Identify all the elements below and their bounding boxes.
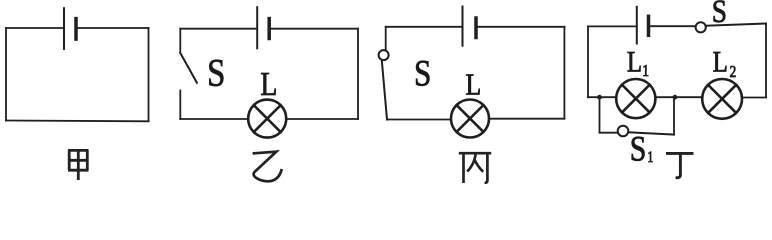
svg-text:2: 2	[730, 63, 737, 82]
caption 丙 under circuit 丙	[459, 153, 491, 183]
wire: bottom-left of circuit 乙 to lamp	[180, 118, 248, 120]
svg-text:S: S	[712, 0, 727, 30]
battery cell G4 of circuit 丁: long positive plate	[636, 7, 638, 44]
wire: bottom-left of circuit 丙 to lamp	[387, 119, 451, 121]
wire: middle row between lamps of circuit 丁	[655, 96, 702, 98]
svg-text:S: S	[630, 130, 647, 169]
label L1 of lamp in circuit 丁	[627, 44, 642, 78]
label S1 of switch in circuit 丁	[630, 130, 647, 169]
caption 乙 under circuit 乙	[253, 152, 282, 182]
switch S1 of circuit 丁: blade to right	[628, 132, 674, 134]
wire: right side of circuit 甲	[148, 28, 150, 121]
label S of switch in circuit 丁	[712, 0, 727, 30]
wire: bottom-right of circuit 乙 from lamp	[286, 118, 358, 120]
wire: top of circuit 丁 from battery to switch S	[649, 25, 696, 27]
battery cell G1 of circuit 甲: long positive plate	[63, 8, 65, 49]
wire: right side of circuit 丙	[563, 27, 565, 119]
svg-text:L: L	[713, 44, 728, 78]
wire: left side of circuit 甲	[5, 28, 7, 121]
wire: lower left side of circuit 乙 below switch gap	[179, 91, 181, 120]
wire: upper left of circuit 丙 down to switch pivot	[385, 27, 387, 50]
caption 甲 under circuit 甲	[68, 150, 89, 180]
wire: bottom of circuit 甲	[6, 120, 149, 123]
wire: top-left segment of circuit 甲	[6, 27, 64, 29]
label S of switch in circuit 乙	[207, 51, 225, 95]
lamp L2 of circuit 丁: circle with cross	[702, 79, 742, 119]
wire: left side of circuit 丁	[587, 26, 589, 97]
wire: top-right segment of circuit 甲	[76, 27, 149, 29]
junction node B (between lamps L1 and L2)	[673, 95, 678, 100]
svg-text:S: S	[207, 51, 225, 95]
wire: bypass branch left vertical from node A	[599, 97, 601, 133]
label L of lamp in circuit 乙	[260, 66, 277, 103]
wire: top of circuit 乙 (left of battery)	[180, 28, 255, 30]
switch S of circuit 丙: pivot circle	[379, 50, 389, 60]
wire: bypass branch bottom-left segment to switch S1	[600, 132, 618, 134]
battery cell G2 of circuit 乙: short thick negative plate	[267, 19, 271, 39]
wire: middle row left segment of circuit 丁	[588, 96, 616, 98]
lamp L of circuit 乙: circle with cross	[248, 100, 286, 138]
wire: middle row right segment of circuit 丁	[742, 97, 766, 99]
battery cell G3 of circuit 丙: long positive plate	[462, 7, 464, 46]
wire: right side of circuit 乙	[357, 29, 359, 119]
caption 丁 under circuit 丁	[666, 153, 694, 177]
battery cell G1 of circuit 甲: short thick negative plate	[74, 19, 78, 39]
wire: upper left side of circuit 乙 above switch	[179, 29, 181, 53]
switch S of circuit 丁: blade to top-right corner	[706, 24, 766, 26]
svg-text:1: 1	[642, 62, 649, 81]
lamp L of circuit 丙: circle with cross	[451, 100, 489, 138]
wire: bypass branch right vertical up to node B	[673, 97, 675, 134]
svg-text:S: S	[414, 53, 431, 94]
wire: right side of circuit 丁	[765, 24, 767, 98]
wire: top of circuit 乙 (right of battery)	[269, 28, 358, 30]
wire: top of circuit 丁 (left of battery)	[588, 25, 635, 27]
svg-text:1: 1	[647, 149, 653, 167]
battery cell G4 of circuit 丁: short thick negative plate	[647, 16, 651, 35]
svg-text:L: L	[627, 44, 642, 78]
svg-text:L: L	[260, 66, 277, 103]
switch S of circuit 丁: pivot circle	[696, 22, 706, 32]
label L of lamp in circuit 丙	[465, 68, 481, 102]
lamp L1 of circuit 丁: circle with cross	[616, 79, 655, 118]
label L2 of lamp in circuit 丁	[713, 44, 728, 78]
switch S of circuit 乙: open knife blade	[180, 53, 197, 83]
junction node A (left of lamp L1)	[597, 95, 602, 100]
switch S of circuit 丙: blade down to bottom corner	[382, 60, 387, 119]
svg-text:L: L	[465, 68, 481, 102]
battery cell G2 of circuit 乙: long positive plate	[256, 7, 258, 48]
wire: top of circuit 丙 (left of battery)	[386, 26, 461, 28]
wire: top of circuit 丙 (right of battery)	[476, 26, 564, 28]
switch S1 of circuit 丁: pivot circle	[618, 126, 629, 137]
battery cell G3 of circuit 丙: short thick negative plate	[474, 18, 478, 38]
label S of switch in circuit 丙	[414, 53, 431, 94]
wire: bottom-right of circuit 丙 from lamp	[489, 118, 564, 120]
